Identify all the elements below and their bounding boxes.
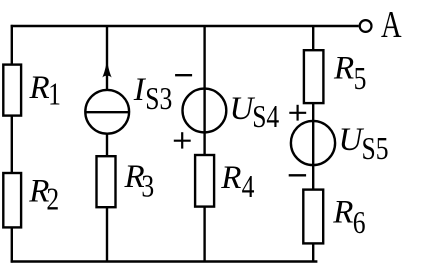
wire top [11, 25, 359, 27]
resistor R4 [195, 155, 214, 207]
svg-text:3: 3 [141, 169, 154, 204]
current source IS3 [85, 90, 129, 134]
terminal A circle [360, 20, 372, 32]
svg-text:S4: S4 [252, 99, 279, 134]
svg-text:R: R [29, 70, 50, 106]
resistor R3 [97, 156, 116, 207]
resistor R2 [3, 173, 21, 227]
svg-text:S5: S5 [362, 131, 389, 166]
wire bottom [11, 260, 318, 262]
resistor R1 [3, 65, 21, 116]
svg-text:R: R [332, 195, 353, 231]
arrow of IS3 [102, 60, 111, 78]
voltage source US4 [183, 89, 227, 133]
wire left [11, 25, 13, 263]
svg-text:6: 6 [353, 205, 366, 240]
resistor R5 [304, 50, 324, 103]
resistor R6 [303, 190, 323, 244]
plus sign of US4 [174, 132, 191, 148]
svg-text:U: U [339, 122, 365, 158]
minus sign of US5 [289, 174, 306, 176]
svg-text:5: 5 [354, 61, 367, 96]
wire branch US4/R4 [203, 26, 205, 262]
svg-text:1: 1 [48, 77, 61, 112]
label A [381, 4, 402, 46]
svg-text:R: R [220, 160, 241, 196]
wire branch R5/US5/R6 [312, 26, 314, 262]
svg-text:4: 4 [242, 169, 255, 204]
svg-text:S3: S3 [145, 81, 172, 116]
voltage source US5 [291, 121, 335, 165]
svg-text:A: A [381, 4, 402, 46]
minus sign of US4 [175, 74, 192, 76]
svg-text:R: R [333, 51, 354, 87]
svg-text:2: 2 [46, 182, 59, 217]
plus sign of US5 [289, 105, 306, 121]
wire branch IS3/R3 [106, 26, 108, 262]
